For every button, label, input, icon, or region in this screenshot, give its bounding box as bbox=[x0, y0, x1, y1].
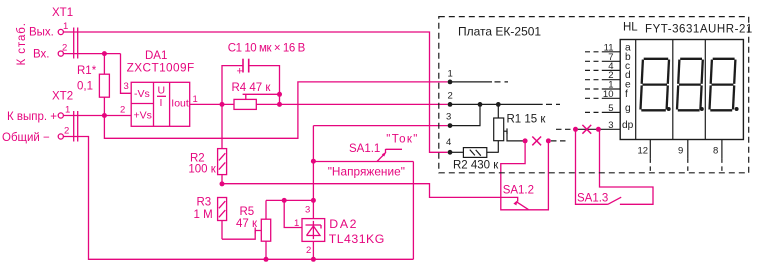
svg-text:12: 12 bbox=[638, 146, 649, 157]
label 100 к bbox=[188, 164, 216, 176]
wire R3 to R5 wiper bbox=[222, 228, 261, 240]
connector XT2 bbox=[58, 111, 77, 142]
label XT1 bbox=[52, 7, 73, 19]
label R3 bbox=[197, 197, 212, 209]
svg-text:1: 1 bbox=[448, 69, 453, 80]
X cut mark 1 bbox=[532, 137, 541, 146]
label U over I bbox=[158, 84, 166, 109]
label + of C1 bbox=[237, 66, 243, 78]
label 47 к bbox=[236, 218, 258, 230]
svg-text:2: 2 bbox=[64, 126, 69, 137]
label DA1 bbox=[145, 50, 167, 62]
svg-text:3: 3 bbox=[446, 112, 451, 123]
label DA2 pin 2 bbox=[306, 245, 311, 256]
svg-text:2: 2 bbox=[62, 43, 67, 54]
svg-text:R1*: R1* bbox=[77, 65, 97, 77]
wire XT1 pin2 to node A bbox=[63, 53, 120, 55]
svg-text:1 М: 1 М bbox=[194, 209, 213, 221]
svg-text:ZXCT1009F: ZXCT1009F bbox=[127, 60, 195, 74]
svg-text:Общий −: Общий − bbox=[2, 132, 50, 144]
svg-text:+: + bbox=[237, 66, 243, 78]
svg-text:К выпр. +: К выпр. + bbox=[7, 111, 57, 123]
label TL431KG bbox=[329, 232, 385, 246]
svg-text:2: 2 bbox=[448, 91, 453, 102]
label board pin 2 bbox=[448, 91, 453, 102]
board ЕК-2501 dashed outline bbox=[439, 17, 749, 173]
wire DA2 pin1 bbox=[284, 200, 302, 227]
label Вх. bbox=[33, 49, 50, 61]
svg-text:dp: dp bbox=[622, 120, 634, 131]
svg-text:Iout: Iout bbox=[171, 98, 189, 110]
resistor R1 15к (board trimmer) bbox=[494, 104, 525, 152]
board pin 4 bbox=[448, 150, 464, 155]
label 0,1 bbox=[77, 81, 93, 93]
wire R2R3 junction to SA1.2 bbox=[220, 181, 518, 201]
display bottom pin 12 bbox=[649, 140, 651, 173]
svg-text:HL: HL bbox=[623, 22, 638, 34]
seven-segment digit 2 bbox=[677, 59, 704, 111]
svg-text:5: 5 bbox=[608, 103, 613, 114]
seven-segment digit 3 bbox=[710, 59, 739, 111]
wire Iout main to board pin2 bbox=[190, 102, 448, 107]
label XT1 pin 2 bbox=[62, 43, 67, 54]
label DA2 bbox=[329, 217, 356, 231]
svg-text:R3: R3 bbox=[197, 197, 212, 209]
junction dots at cut 2 bbox=[573, 127, 601, 132]
label DA2 pin 1 bbox=[294, 218, 299, 229]
svg-text:I: I bbox=[160, 97, 163, 109]
display bottom pin 8 bbox=[721, 140, 723, 173]
label board pin 1 bbox=[448, 69, 453, 80]
svg-text:3: 3 bbox=[124, 81, 129, 92]
svg-text:8: 8 bbox=[713, 146, 718, 157]
cut trace wire dp row bbox=[556, 128, 620, 130]
svg-text:TL431KG: TL431KG bbox=[329, 232, 385, 246]
svg-text:R5: R5 bbox=[240, 206, 255, 218]
svg-text:SA1.1: SA1.1 bbox=[349, 143, 380, 155]
label К выпр. + bbox=[7, 111, 57, 123]
wire XT2 pin1 to DA1 pin2 bbox=[63, 113, 131, 118]
svg-text:DA2: DA2 bbox=[329, 217, 356, 231]
switch SA1.1 bbox=[313, 149, 413, 162]
svg-text:SA1.3: SA1.3 bbox=[577, 192, 608, 204]
label К стаб. (vertical) bbox=[16, 23, 28, 66]
svg-text:Вх.: Вх. bbox=[33, 49, 50, 61]
seven-segment digit 1 bbox=[641, 59, 671, 111]
labels display segment letters bbox=[622, 42, 634, 131]
svg-text:1: 1 bbox=[65, 104, 70, 115]
label SA1.2 bbox=[503, 185, 534, 197]
svg-text:2: 2 bbox=[120, 105, 125, 116]
label HL bbox=[623, 22, 638, 34]
svg-text:R2 430 к: R2 430 к bbox=[453, 160, 499, 172]
label R2 bbox=[190, 153, 205, 165]
label XT2 pin 2 bbox=[64, 126, 69, 137]
svg-text:-Vs: -Vs bbox=[134, 88, 150, 100]
svg-text:"Ток": "Ток" bbox=[386, 134, 417, 146]
svg-text:+Vs: +Vs bbox=[134, 110, 152, 122]
label Общий − bbox=[2, 132, 50, 144]
display pin ladder bbox=[585, 52, 620, 113]
label DA1 pin 3 bbox=[124, 81, 129, 92]
label SA1.1 bbox=[349, 143, 380, 155]
label R1 15 к bbox=[507, 114, 547, 126]
display HL FYT-3631AUHR-21 bbox=[620, 40, 743, 140]
X cut mark 2 bbox=[582, 125, 591, 134]
svg-text:4: 4 bbox=[446, 137, 451, 148]
label XT1 pin 1 bbox=[63, 21, 68, 32]
svg-text:3: 3 bbox=[305, 205, 310, 216]
svg-text:10: 10 bbox=[603, 89, 614, 100]
svg-text:47 к: 47 к bbox=[236, 218, 258, 230]
svg-text:FYT-3631AUHR-21: FYT-3631AUHR-21 bbox=[645, 23, 752, 35]
svg-text:U: U bbox=[158, 84, 166, 96]
resistor R1* bbox=[99, 54, 109, 116]
svg-text:1: 1 bbox=[193, 94, 198, 105]
label pin 12 bbox=[638, 146, 649, 157]
labels display pin numbers bbox=[603, 42, 614, 131]
label +Vs bbox=[134, 110, 152, 122]
capacitor C1 bbox=[222, 59, 282, 105]
label ZXCT1009F bbox=[127, 60, 195, 74]
display bottom pin 9 bbox=[687, 140, 689, 173]
svg-text:g: g bbox=[625, 103, 631, 114]
label R2 430 к bbox=[453, 160, 499, 172]
label -Vs bbox=[134, 88, 150, 100]
connector XT1 bbox=[58, 28, 77, 59]
label Iout bbox=[171, 98, 189, 110]
label pin 9 bbox=[678, 146, 683, 157]
cut trace wire (dp row lower) bbox=[551, 140, 566, 142]
resistor R5 (trimmer) bbox=[261, 200, 270, 259]
label C1 10 мк х 16 В bbox=[228, 42, 306, 54]
label XT2 pin 1 bbox=[65, 104, 70, 115]
wire DA2 pin2 to bus bbox=[312, 241, 314, 259]
label R1* bbox=[77, 65, 97, 77]
label XT2 bbox=[52, 91, 73, 103]
board pin 3 bbox=[448, 104, 480, 128]
svg-text:"Напряжение": "Напряжение" bbox=[328, 165, 405, 179]
label Вых. bbox=[29, 27, 54, 39]
IC DA2 TL431KG bbox=[302, 219, 325, 242]
svg-text:XT2: XT2 bbox=[52, 91, 73, 103]
svg-text:Вых.: Вых. bbox=[29, 27, 54, 39]
wire pin1 net (XT2.1 down, under DA1, up to board pin1) bbox=[104, 82, 447, 138]
svg-text:0,1: 0,1 bbox=[77, 81, 93, 93]
label Плата ЕК-2501 bbox=[458, 25, 541, 39]
svg-text:SA1.2: SA1.2 bbox=[503, 185, 534, 197]
label 1 М bbox=[194, 209, 213, 221]
svg-text:Плата ЕК-2501: Плата ЕК-2501 bbox=[458, 25, 541, 39]
label board pin 3 bbox=[446, 112, 451, 123]
svg-text:XT1: XT1 bbox=[52, 7, 73, 19]
op-amp DA1 ZXCT1009F bbox=[131, 82, 190, 126]
svg-text:R4 47 к: R4 47 к bbox=[232, 82, 272, 94]
svg-text:9: 9 bbox=[678, 146, 683, 157]
svg-text:С1 10 мк × 16 В: С1 10 мк × 16 В bbox=[228, 42, 306, 54]
ground bus wire bbox=[63, 137, 413, 262]
svg-text:К стаб.: К стаб. bbox=[16, 23, 28, 66]
label R4 47 к bbox=[232, 82, 272, 94]
resistor R3 bbox=[218, 198, 227, 240]
wire SA1.1 to ground bus bbox=[412, 162, 414, 260]
label DA2 pin 3 bbox=[305, 205, 310, 216]
svg-text:100 к: 100 к bbox=[188, 164, 216, 176]
svg-text:1: 1 bbox=[63, 21, 68, 32]
label pin 8 bbox=[713, 146, 718, 157]
svg-text:f: f bbox=[625, 89, 628, 100]
svg-text:2: 2 bbox=[306, 245, 311, 256]
label board pin 4 bbox=[446, 137, 451, 148]
wire XT1 pin1 to board pin4 bbox=[63, 32, 447, 152]
board pin 2 bbox=[448, 102, 560, 107]
wire node A to DA1 pin3 bbox=[121, 54, 132, 94]
switch SA1.2 bbox=[501, 141, 549, 210]
label "Ток" bbox=[386, 134, 417, 146]
label "Напряжение" bbox=[328, 165, 405, 179]
label R5 bbox=[240, 206, 255, 218]
node A junction dot bbox=[102, 51, 107, 56]
junction dots at cut 1 bbox=[523, 138, 551, 143]
svg-text:1: 1 bbox=[294, 218, 299, 229]
resistor R2 430к (board) bbox=[463, 148, 498, 158]
label FYT-3631AUHR-21 bbox=[645, 23, 752, 35]
label DA1 pin 1 bbox=[193, 94, 198, 105]
label SA1.3 bbox=[577, 192, 608, 204]
board pin 1 bbox=[448, 80, 508, 85]
wire ref node (R5 top to DA2) bbox=[266, 198, 316, 203]
svg-text:3: 3 bbox=[608, 120, 613, 131]
svg-text:R1 15 к: R1 15 к bbox=[507, 114, 547, 126]
switch SA1.3 bbox=[576, 129, 654, 204]
resistor R2 bbox=[218, 104, 227, 183]
label DA1 pin 2 bbox=[120, 105, 125, 116]
resistor R4 (trimmer) bbox=[234, 94, 280, 109]
wire pin3 net vertical bbox=[311, 126, 448, 219]
